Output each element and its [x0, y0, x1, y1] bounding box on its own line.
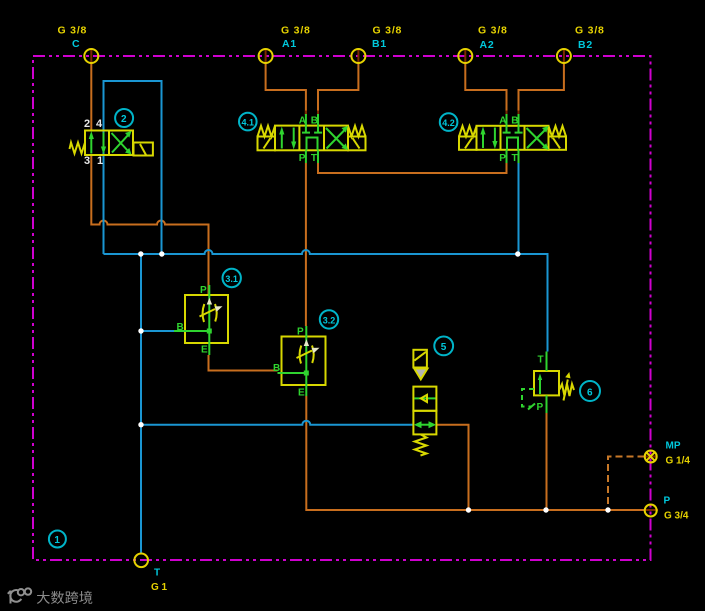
balloon 1 — [49, 531, 66, 548]
cyan 3.1 B branch — [141, 330, 174, 332]
valve 2 port numbers — [84, 118, 103, 167]
valve 4.1 body — [258, 126, 366, 151]
svg-text:P: P — [664, 496, 671, 507]
svg-text:1: 1 — [97, 155, 103, 167]
cyan T line down to port T — [140, 254, 142, 554]
svg-text:B2: B2 — [578, 39, 593, 51]
cyan tank manifold — [104, 250, 548, 352]
svg-text:T: T — [311, 153, 317, 164]
4.2 green port stubs — [506, 114, 508, 126]
port B1 — [351, 49, 365, 63]
manifold border (magenta dash-dot frame) — [33, 56, 651, 560]
4.1 green port stubs — [305, 114, 307, 126]
svg-text:G 3/8: G 3/8 — [575, 25, 605, 37]
svg-text:2: 2 — [121, 114, 127, 125]
svg-text:4: 4 — [96, 118, 103, 130]
svg-text:5: 5 — [441, 342, 447, 353]
balloon 6 — [580, 381, 600, 401]
svg-text:P: P — [499, 153, 506, 164]
spring valve2 — [70, 143, 86, 154]
valve 4.1 internals — [279, 114, 348, 163]
svg-text:B: B — [273, 363, 280, 374]
cyan valve2 loop — [104, 81, 162, 254]
port P — [645, 505, 657, 517]
svg-text:2: 2 — [84, 118, 90, 130]
wire B1 to 4.1 B — [357, 49, 359, 62]
valve 6 port letters — [537, 355, 544, 414]
port C — [84, 49, 98, 63]
svg-text:4.2: 4.2 — [442, 118, 455, 128]
svg-text:A1: A1 — [282, 38, 297, 50]
4.2 right solenoid — [549, 137, 567, 150]
4.2 left solenoid — [459, 137, 477, 150]
valve 5 — [413, 350, 436, 456]
wire 4.1 P down to 3.2 P — [305, 163, 307, 326]
valve 3.2 flow control — [278, 326, 326, 396]
port T — [134, 554, 148, 568]
balloon 2 — [115, 109, 133, 127]
svg-text:G 3/8: G 3/8 — [281, 25, 311, 37]
balloon 3.1 — [223, 269, 241, 287]
svg-text:P: P — [299, 153, 306, 164]
wire B2 to 4.2 B — [563, 49, 565, 62]
svg-text:6: 6 — [587, 387, 593, 398]
svg-text:T: T — [538, 355, 544, 366]
watermark text — [37, 591, 93, 604]
svg-text:P: P — [537, 402, 544, 413]
svg-text:B: B — [177, 322, 184, 333]
svg-text:C: C — [72, 38, 80, 50]
valve 3.1 port letters — [177, 285, 209, 356]
svg-text:4.1: 4.1 — [242, 118, 255, 128]
wire 3.2 E down to P manifold — [306, 396, 644, 510]
svg-text:E: E — [298, 388, 305, 399]
4.1 left solenoid — [258, 137, 276, 151]
svg-text:P: P — [200, 285, 207, 296]
wire valve2 port3 down and across to 3.1 P — [91, 154, 208, 295]
svg-text:1: 1 — [54, 535, 60, 546]
svg-text:B1: B1 — [372, 38, 387, 50]
valve 6 relief — [522, 352, 574, 414]
svg-text:B: B — [511, 116, 518, 127]
4.1 right solenoid — [348, 137, 366, 151]
port A1 — [259, 49, 273, 63]
svg-text:B: B — [311, 116, 318, 127]
port MP — [645, 451, 657, 463]
watermark logo icon — [8, 588, 31, 603]
wire A1 to 4.1 A — [265, 49, 267, 62]
valve 4.2 port letters — [499, 116, 518, 165]
wire A2 to 4.2 A — [464, 49, 466, 62]
svg-text:3.2: 3.2 — [323, 315, 336, 325]
wire C down to valve 2 — [90, 49, 92, 62]
port labels top — [58, 25, 605, 52]
svg-text:A2: A2 — [480, 39, 495, 51]
svg-text:T: T — [512, 153, 518, 164]
balloon 4.2 — [440, 113, 458, 131]
svg-text:G 3/8: G 3/8 — [373, 25, 403, 37]
port A2 — [458, 49, 472, 63]
svg-text:E: E — [201, 345, 208, 356]
cyan feed to valve 5 — [141, 421, 414, 425]
balloon 3.2 — [320, 310, 338, 328]
svg-text:3: 3 — [84, 155, 90, 167]
wire 3.1 E to 3.2 B — [209, 355, 278, 371]
red overlap stubs at 4.1/4.2 A-B ports — [306, 111, 519, 116]
valve 3.2 port letters — [273, 327, 305, 399]
svg-text:G 1/4: G 1/4 — [666, 456, 691, 467]
svg-text:3.1: 3.1 — [225, 274, 238, 284]
valve 4.1 port letters — [299, 116, 318, 165]
valve 2 arrows — [89, 131, 132, 155]
svg-text:G 1: G 1 — [151, 582, 168, 593]
dashed pilot line MP — [608, 457, 645, 511]
balloon 4.1 — [239, 113, 257, 131]
port B2 — [557, 49, 571, 63]
wire valve 6 P down to manifold — [546, 413, 548, 510]
cyan 4.2 T down — [518, 163, 520, 254]
svg-text:T: T — [154, 568, 160, 579]
svg-text:G 3/4: G 3/4 — [664, 511, 689, 522]
valve 2 body — [70, 131, 153, 156]
svg-text:G 3/8: G 3/8 — [478, 25, 508, 37]
valve 4.2 body — [459, 126, 566, 150]
valve 3.1 flow control — [174, 285, 228, 355]
svg-text:MP: MP — [666, 441, 681, 452]
svg-text:P: P — [297, 327, 304, 338]
wire 4.1 T to 4.2 P — [318, 163, 507, 173]
wire valve 5 out to P manifold — [437, 425, 469, 510]
svg-text:A: A — [499, 116, 506, 127]
balloon 5 — [434, 337, 453, 356]
svg-text:G 3/8: G 3/8 — [58, 25, 88, 37]
solenoid box valve2 — [134, 143, 153, 156]
valve 4.2 internals — [480, 114, 548, 163]
svg-text:A: A — [299, 116, 306, 127]
